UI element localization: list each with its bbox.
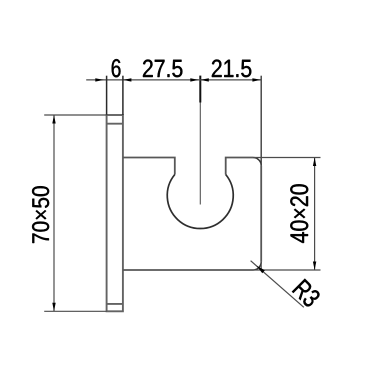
dimension text 40x20 (rotated): [290, 184, 308, 243]
extension line at flange left: [106, 76, 108, 115]
arrow at 260.9 pointing right: [252, 78, 261, 81]
top dimension line: [86, 79, 261, 81]
body bottom edge: [123, 269, 253, 271]
right top extension line (passes through fillet): [253, 157, 321, 159]
centerline of hole (thin): [199, 103, 201, 205]
left bottom extension line: [44, 310, 106, 312]
flange corner-radius tangent line bottom: [107, 303, 123, 305]
arrow right dim bottom pointing down: [313, 262, 316, 271]
arrow right dim top pointing up: [313, 158, 316, 167]
arrow at 122.9 pointing left: [123, 78, 131, 81]
extension line at body right edge (passes through fillet): [260, 76, 262, 166]
centerline extension (thick): [199, 76, 201, 103]
body top-right fillet arc R3: [253, 158, 261, 166]
dimension text R3 (rotated 45deg): [292, 279, 322, 309]
dimension text 70x50 (rotated): [32, 186, 49, 243]
arrow left dim top pointing up: [52, 115, 55, 124]
dimension text 6: [112, 59, 121, 77]
arrow left dim bottom pointing down: [52, 303, 55, 312]
dimension text 21.5: [212, 60, 251, 78]
bracket body top edge + keyhole slot: [123, 158, 253, 175]
body bottom-right fillet arc R3: [253, 262, 261, 270]
corner through-line bottom right vertical: [260, 262, 262, 270]
R3 leader line: [251, 261, 304, 308]
dimension graphics: [44, 76, 320, 312]
arrowheads: [52, 78, 316, 311]
left vertical dimension line 70x50: [53, 115, 55, 311]
arrow at 200.3 pointing left: [200, 78, 209, 81]
right vertical dimension line 40x20: [314, 158, 316, 271]
keyhole circle arc: [167, 175, 233, 229]
wall flange plate (side view): [107, 115, 123, 311]
left top extension line: [44, 114, 106, 116]
arrow 6 left (outside, pointing right): [95, 78, 104, 81]
flange corner-radius tangent line top: [107, 123, 123, 125]
dimension text 27.5: [143, 60, 182, 78]
arrow R3 leader pointing up-left: [257, 266, 265, 273]
body right edge: [260, 166, 262, 262]
right bottom extension line (passes through fillet): [253, 269, 321, 271]
arrow at 200.3 pointing right: [190, 78, 199, 81]
extension line at flange right: [122, 76, 124, 115]
